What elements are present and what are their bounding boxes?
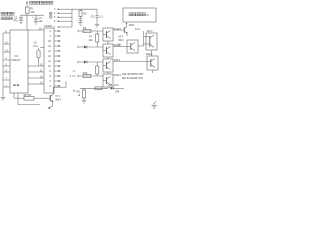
svg-text:VD5: VD5 (108, 84, 113, 87)
svg-text:2: 2 (50, 30, 52, 33)
wire VT1 emitter down (52, 102, 54, 107)
emitter ground arrow (48, 106, 53, 109)
top pin 7 arrow (54, 26, 72, 29)
svg-text:220V: 220V (129, 24, 135, 27)
resistor R12 (95, 87, 102, 90)
resistor R10 (83, 72, 91, 78)
node arrow to amplifier (26, 1, 28, 7)
svg-text:473: 473 (14, 19, 19, 22)
capacitor C4 (32, 15, 38, 21)
wire stage1 base (78, 30, 103, 33)
svg-text:3: 3 (54, 8, 56, 11)
svg-text:7: 7 (50, 80, 52, 83)
wire IC1 pin10 to IC2 (28, 63, 44, 66)
wire D to E (138, 31, 150, 46)
svg-text:12.6: 12.6 (135, 28, 140, 31)
output box F (147, 56, 158, 70)
wire stage2 base (78, 46, 103, 49)
IC2 pin 11 arrow (48, 60, 61, 63)
net tick b (70, 75, 76, 78)
svg-text:4: 4 (54, 12, 56, 15)
svg-text:8: 8 (50, 75, 52, 78)
wire Q2 to box D (113, 44, 127, 47)
label R7 20k (89, 35, 94, 42)
diode VD3 (84, 61, 87, 64)
svg-text:1: 1 (70, 75, 72, 78)
ground C1 (19, 21, 23, 24)
box cascade links (107, 41, 109, 88)
label CD4511 (44, 25, 53, 28)
label spec line 1 (122, 73, 144, 76)
resistor R9 (96, 62, 99, 76)
label 12.6 DM (114, 84, 119, 93)
resistor R11 (82, 88, 85, 100)
label 调谐显示IC (129, 13, 149, 17)
pin stub IC1.13 (3, 49, 10, 52)
label 来自前级 (1, 17, 13, 20)
IC2 pin 2 arrow (50, 30, 61, 33)
IC1 CD4017 body (10, 30, 28, 93)
svg-text:DM: DM (115, 90, 119, 93)
IC2 body (44, 28, 54, 93)
wire Q3 to box F (113, 61, 151, 63)
wire IC1 pin16 to IC2 (28, 27, 44, 30)
wire stage3 base (78, 61, 103, 64)
wire IC1 pin12 to IC2 (28, 75, 44, 78)
svg-text:6: 6 (54, 20, 56, 23)
label VT4 9014 (118, 35, 124, 41)
svg-text:DDL 50V/60Hz 2WY: DDL 50V/60Hz 2WY (122, 73, 144, 76)
IC2 pin 7 arrow (50, 80, 61, 83)
IC2 pin 9 arrow (50, 70, 61, 73)
IC2 pin 13 arrow (48, 50, 61, 53)
wire IC1 pin11 to IC2 (28, 69, 44, 72)
wire IC1 pin to R5 (14, 93, 24, 98)
label C1 473 (14, 16, 19, 22)
svg-text:C9: C9 (91, 16, 95, 19)
output box E (144, 33, 158, 50)
capacitor C5 stub (39, 48, 45, 50)
svg-text:20k: 20k (89, 39, 94, 42)
IC2 pin 1 arrow (50, 35, 61, 38)
svg-text:10u: 10u (39, 20, 44, 23)
resistor R1 (26, 7, 30, 13)
resistor R7 (96, 31, 99, 47)
label VT1 9014 (55, 95, 61, 102)
svg-text:13: 13 (48, 50, 51, 53)
IC2 pin 10 arrow (48, 65, 61, 68)
pin stub IC1.6 (3, 69, 10, 72)
label SCR1 (114, 28, 122, 31)
svg-text:RD: 8V-9a/4W SYD: RD: 8V-9a/4W SYD (122, 77, 143, 80)
top pin 3 arrow (54, 8, 72, 11)
transistor VT1 (44, 94, 53, 102)
svg-text:IC: IC (146, 14, 149, 17)
top supply wire (72, 8, 97, 10)
svg-text:9: 9 (50, 70, 52, 73)
label C5 0.1u (33, 42, 38, 48)
IC2 pin 6 arrow (50, 85, 61, 88)
label 显示 vertical (50, 12, 52, 18)
wire VT1 collector (53, 81, 66, 94)
wire R5 to VT1 base (34, 97, 44, 99)
svg-text:VD6-9: VD6-9 (146, 53, 153, 56)
svg-text:VT1: VT1 (55, 95, 60, 98)
ground C4 (34, 22, 38, 25)
net tick a (73, 70, 76, 72)
top pin 5 arrow (54, 16, 72, 19)
driver box Q3 (103, 59, 113, 72)
label R8 (83, 13, 87, 16)
top pin 4 arrow (54, 12, 72, 15)
label C4 10u (39, 17, 44, 23)
label R1 220 (30, 8, 35, 14)
svg-text:15: 15 (48, 40, 51, 43)
svg-text:14: 14 (48, 45, 51, 48)
resistor R8 (79, 9, 82, 18)
svg-text:10: 10 (48, 65, 51, 68)
svg-text:5: 5 (54, 16, 56, 19)
svg-text:R7: R7 (89, 35, 93, 38)
ground R11 (82, 100, 86, 103)
label 220V (129, 24, 135, 27)
resistor R6 (83, 27, 91, 33)
driver box Q2 (103, 44, 113, 57)
svg-text:0.1u: 0.1u (33, 45, 38, 48)
wire IC1 bottom branch (18, 93, 40, 105)
svg-text:12.6: 12.6 (114, 84, 119, 87)
label spec line 2 (122, 77, 143, 80)
IC2 pin 8 arrow (50, 75, 61, 78)
svg-text:11: 11 (48, 60, 51, 63)
pin stub IC1.7 (3, 77, 10, 80)
wire IC1 pin13 to IC2 (28, 81, 44, 84)
bus vertical (71, 9, 73, 27)
svg-text:9013: 9013 (118, 39, 124, 42)
pin stub IC1.12 (3, 41, 10, 44)
top pin 6 arrow (54, 20, 72, 23)
label VD6-9 (146, 53, 153, 56)
driver box Q1 (103, 28, 113, 41)
svg-text:0.1: 0.1 (100, 16, 104, 19)
svg-text:R2: R2 (83, 13, 87, 16)
svg-text:SCR-V: SCR-V (114, 28, 122, 31)
arrow into box (126, 22, 128, 27)
svg-text:9014: 9014 (55, 99, 61, 102)
corner ground mark (151, 102, 157, 109)
label 接末级放大电路 (30, 1, 53, 4)
svg-text:SCR-4: SCR-4 (114, 74, 122, 77)
pin stub IC1.2 (3, 84, 10, 87)
left ground rail (2, 33, 4, 97)
svg-text:1k: 1k (78, 94, 81, 97)
IC2 pin 12 arrow (48, 55, 61, 58)
wire stage4 base (78, 75, 103, 78)
svg-text:6: 6 (50, 85, 52, 88)
capacitor C1 (19, 15, 23, 20)
IC2 pin 15 arrow (48, 40, 61, 43)
label IC1 CD4017 (11, 55, 21, 62)
diode VD2 (84, 46, 87, 49)
pin stub IC1.5 (3, 63, 10, 66)
label VD3-4 (114, 59, 121, 62)
label 输入信号 (1, 12, 14, 15)
wire input rail (21, 14, 45, 16)
label SCR-4 (114, 74, 122, 77)
svg-text:R10: R10 (83, 72, 88, 75)
label 1k (73, 89, 76, 92)
transistor VT4 (113, 27, 128, 36)
capacitor C8 (79, 19, 83, 23)
pin stub IC1.8 (3, 30, 10, 33)
IC1 inner marks (13, 84, 19, 86)
wire R1 to IC1 (26, 13, 28, 30)
ground C8 (78, 23, 82, 26)
driver box Q4 (103, 74, 113, 87)
diode VD5 (108, 84, 124, 90)
bottom rail wire (80, 87, 108, 89)
svg-text:220: 220 (30, 11, 35, 14)
label 12V-1 (146, 30, 153, 33)
wire E to F (151, 50, 153, 56)
IC2 pin 14 arrow (48, 45, 61, 48)
resistor R3 (37, 50, 40, 58)
svg-text:12V-1: 12V-1 (146, 30, 153, 33)
svg-text:CD4017: CD4017 (11, 59, 21, 62)
pin stub IC1.4 (3, 57, 10, 60)
svg-text:1: 1 (50, 35, 52, 38)
label 12.6 (135, 28, 140, 31)
ground rail symbol (1, 97, 6, 100)
control box IC (123, 8, 156, 22)
svg-text:R11: R11 (76, 90, 81, 93)
svg-text:7: 7 (54, 26, 56, 29)
svg-text:R5 47k: R5 47k (24, 94, 32, 97)
svg-text:IC1: IC1 (15, 55, 20, 58)
svg-text:+: + (32, 16, 34, 19)
wire R3 down (38, 58, 40, 66)
svg-text:12: 12 (48, 55, 51, 58)
label C9 (91, 16, 104, 19)
label R5 47k (24, 94, 32, 97)
capacitor C9 (95, 9, 99, 24)
wire F down (152, 70, 154, 73)
label SCR2 (114, 44, 122, 47)
resistor R5 (24, 97, 34, 101)
label R11 1k (76, 90, 81, 97)
output box D (127, 40, 138, 53)
ground C9 (95, 24, 99, 27)
